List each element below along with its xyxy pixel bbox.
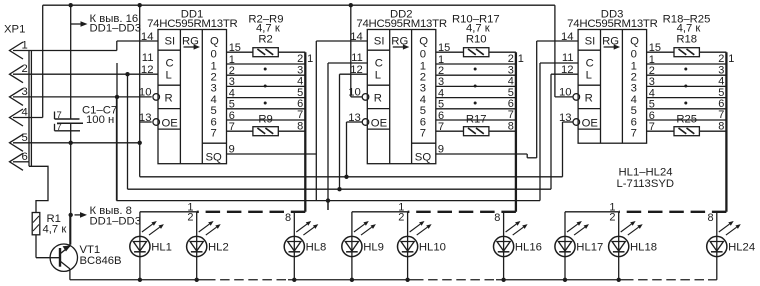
svg-text:Q: Q bbox=[210, 35, 219, 47]
DD1 pin4 wire bbox=[227, 87, 306, 99]
DD1 SQ section bbox=[202, 143, 226, 163]
svg-text:3: 3 bbox=[229, 76, 235, 88]
svg-text:4: 4 bbox=[211, 94, 217, 106]
node junction L rail / DD2 riser bbox=[337, 187, 341, 191]
svg-text:1: 1 bbox=[420, 60, 426, 72]
connector XP1 pin 1 contact bbox=[10, 40, 28, 60]
svg-text:4: 4 bbox=[631, 94, 637, 106]
svg-text:3: 3 bbox=[438, 76, 444, 88]
wire DD2 SQ link jog bbox=[527, 154, 537, 158]
DD1 labels bbox=[162, 35, 220, 129]
wire HL17 cathode bbox=[564, 257, 566, 280]
wire HL1 cathode bbox=[139, 257, 141, 280]
ellipsis dots group 1 bbox=[264, 68, 267, 105]
svg-text:C: C bbox=[375, 58, 383, 70]
svg-text:6: 6 bbox=[211, 116, 217, 128]
wire XP1 pin3 to DD1 pin10 bbox=[13, 96, 152, 98]
svg-text:0: 0 bbox=[211, 49, 217, 61]
svg-text:1: 1 bbox=[22, 40, 28, 52]
DD3 pin4 wire bbox=[647, 87, 727, 99]
IC DD2 body bbox=[367, 30, 436, 164]
LED HL1 bbox=[130, 221, 172, 257]
wire L rail bbox=[128, 188, 552, 190]
node HL17 cathode junction bbox=[563, 278, 567, 282]
wire R1 to VT1 base bbox=[36, 235, 60, 258]
svg-text:HL2: HL2 bbox=[208, 242, 229, 254]
node junction top rail / DD2 pin10 drop bbox=[349, 3, 353, 7]
svg-text:5: 5 bbox=[297, 87, 303, 99]
svg-text:10: 10 bbox=[139, 87, 152, 99]
connector XP1 pin 2 contact bbox=[10, 63, 28, 83]
svg-text:4,7 к: 4,7 к bbox=[256, 22, 280, 34]
svg-text:2: 2 bbox=[438, 65, 444, 77]
node junction к выв 8 bbox=[69, 213, 73, 217]
svg-text:4: 4 bbox=[420, 94, 426, 106]
node HL10 cathode junction bbox=[405, 278, 409, 282]
svg-text:5: 5 bbox=[211, 105, 217, 117]
svg-text:15: 15 bbox=[229, 42, 241, 54]
svg-text:4: 4 bbox=[438, 87, 444, 99]
DD1 pin15 wire bbox=[227, 42, 306, 54]
svg-text:2: 2 bbox=[187, 212, 193, 224]
node HL1 cathode junction bbox=[138, 278, 142, 282]
wire cathode rail dashed 2 bbox=[414, 279, 496, 281]
svg-text:4,7 к: 4,7 к bbox=[466, 22, 490, 34]
label C1-C7 value bbox=[82, 104, 117, 125]
svg-text:8: 8 bbox=[707, 212, 713, 224]
DD3 pin13 inversion circle bbox=[573, 119, 580, 126]
DD3 pin15 wire bbox=[647, 42, 727, 54]
svg-text:9: 9 bbox=[438, 143, 444, 155]
svg-text:7: 7 bbox=[438, 121, 444, 133]
DD1 pin9 wire bbox=[227, 143, 317, 155]
DD3 pin5 wire bbox=[647, 99, 727, 111]
wire DD2 OE riser bbox=[347, 122, 363, 177]
resistor R25 bbox=[674, 114, 699, 136]
svg-text:7: 7 bbox=[718, 109, 724, 121]
svg-text:R: R bbox=[585, 92, 593, 104]
svg-text:4: 4 bbox=[508, 76, 514, 88]
svg-text:0: 0 bbox=[631, 49, 637, 61]
svg-text:6: 6 bbox=[438, 110, 444, 122]
svg-text:4: 4 bbox=[22, 107, 28, 119]
svg-text:4: 4 bbox=[649, 87, 655, 99]
svg-text:2: 2 bbox=[718, 53, 724, 65]
svg-text:6: 6 bbox=[22, 151, 28, 163]
svg-text:L: L bbox=[166, 69, 172, 81]
svg-text:2: 2 bbox=[398, 212, 404, 224]
DD2 pin1 wire bbox=[436, 54, 516, 66]
svg-text:DD1–DD3: DD1–DD3 bbox=[90, 23, 141, 35]
wire group 2 anode bus solid bbox=[352, 211, 408, 213]
DD2 pin6 wire bbox=[436, 110, 516, 122]
node junction top rail / C1 line bbox=[69, 3, 73, 7]
wire DD2 C riser bbox=[328, 63, 367, 210]
svg-text:1: 1 bbox=[211, 60, 217, 72]
wire cathode rail solid 1 bbox=[70, 279, 206, 281]
svg-text:2: 2 bbox=[229, 65, 235, 77]
LED HL10 bbox=[398, 221, 446, 257]
svg-text:74HC595RM13TR: 74HC595RM13TR bbox=[567, 18, 657, 30]
LED HL17 bbox=[555, 221, 603, 257]
svg-text:1: 1 bbox=[307, 53, 313, 65]
wire group 2 anode bus dashed bbox=[408, 211, 516, 213]
wire group 3 anode bus dashed bbox=[619, 211, 727, 213]
wire group 3 LED8 riser bbox=[716, 212, 718, 237]
IC DD1 body bbox=[158, 30, 227, 164]
svg-text:OE: OE bbox=[582, 117, 599, 129]
wire GND vertical к выв 8 bbox=[70, 143, 72, 245]
svg-text:2: 2 bbox=[211, 72, 217, 84]
LED HL16 bbox=[494, 221, 542, 257]
svg-text:1: 1 bbox=[728, 53, 734, 65]
wire DD3 OE riser bbox=[563, 122, 574, 177]
svg-text:5: 5 bbox=[718, 87, 724, 99]
svg-text:3: 3 bbox=[508, 64, 514, 76]
svg-text:11: 11 bbox=[142, 52, 154, 64]
svg-text:3: 3 bbox=[22, 86, 28, 98]
DD3 pin1 wire bbox=[647, 54, 727, 66]
wire group 3 LED2 riser bbox=[618, 212, 620, 237]
connector XP1 pin 4 contact bbox=[10, 107, 28, 127]
DD2 pin4 wire bbox=[436, 87, 516, 99]
svg-text:5: 5 bbox=[22, 132, 28, 144]
svg-text:R2: R2 bbox=[258, 34, 272, 46]
node junction pin3/C net bbox=[115, 95, 119, 99]
DD1 pin2 wire bbox=[227, 65, 306, 77]
svg-text:VT1: VT1 bbox=[80, 244, 101, 256]
DD2 pin3 wire bbox=[436, 76, 516, 88]
svg-text:1: 1 bbox=[229, 54, 235, 66]
svg-text:2: 2 bbox=[609, 212, 615, 224]
label resistor group R18–R25 bbox=[663, 14, 711, 35]
svg-text:SI: SI bbox=[585, 35, 596, 47]
svg-text:HL1–HL24: HL1–HL24 bbox=[619, 167, 673, 179]
svg-text:RG: RG bbox=[391, 35, 408, 47]
ellipsis dots group 2 bbox=[474, 68, 477, 105]
DD1 pin1 wire bbox=[227, 54, 306, 66]
node HL16 cathode junction bbox=[501, 278, 505, 282]
resistor R10 bbox=[464, 34, 489, 57]
IC DD1 74HC595 title bbox=[147, 8, 237, 30]
svg-text:R10: R10 bbox=[466, 34, 487, 46]
DD3 pin2 wire bbox=[647, 65, 727, 77]
LED HL24 bbox=[707, 221, 755, 257]
svg-text:74HC595RM13TR: 74HC595RM13TR bbox=[356, 18, 446, 30]
LED HL8 bbox=[284, 221, 326, 257]
DD2 pin15 wire bbox=[436, 42, 516, 54]
svg-text:HL1: HL1 bbox=[151, 242, 172, 254]
svg-text:4: 4 bbox=[229, 87, 235, 99]
wire group 1 LED1 riser bbox=[139, 212, 141, 237]
wire HL2 cathode bbox=[196, 257, 198, 280]
node HL18 cathode junction bbox=[617, 278, 621, 282]
svg-text:13: 13 bbox=[139, 112, 152, 124]
node junction pin2/L rail bbox=[125, 72, 129, 76]
svg-text:3: 3 bbox=[649, 76, 655, 88]
svg-text:2: 2 bbox=[420, 72, 426, 84]
wire group 1 anode bus solid bbox=[140, 211, 197, 213]
wire stub below C rail bbox=[327, 201, 329, 210]
svg-text:0: 0 bbox=[420, 49, 426, 61]
connector XP1 pin 5 contact bbox=[10, 132, 28, 152]
svg-text:SQ: SQ bbox=[415, 151, 432, 163]
svg-text:8: 8 bbox=[718, 120, 724, 132]
svg-text:XP1: XP1 bbox=[4, 24, 25, 36]
svg-text:7: 7 bbox=[631, 128, 637, 140]
node junction top rail / DD1 drop bbox=[138, 3, 142, 7]
svg-text:SQ: SQ bbox=[206, 151, 223, 163]
svg-text:7: 7 bbox=[420, 128, 426, 140]
svg-text:4: 4 bbox=[718, 76, 724, 88]
wire cathode rail solid 3 bbox=[496, 279, 624, 281]
svg-text:HL16: HL16 bbox=[515, 242, 542, 254]
DD1 pin13 inversion circle bbox=[153, 119, 160, 126]
label HL1-HL24 type bbox=[617, 167, 675, 190]
svg-text:7: 7 bbox=[229, 121, 235, 133]
wire group 1 LED2 riser bbox=[196, 212, 198, 237]
svg-text:3: 3 bbox=[211, 83, 217, 95]
wire DD3 C riser bbox=[540, 63, 578, 201]
DD2 pin2 wire bbox=[436, 65, 516, 77]
node junction OE rail / DD2 riser bbox=[344, 175, 348, 179]
node HL8 cathode junction bbox=[292, 278, 296, 282]
ellipsis dots group 3 bbox=[684, 68, 687, 105]
DD2 pin5 wire bbox=[436, 99, 516, 111]
wire +V top rail bbox=[43, 4, 555, 6]
resistor R18 bbox=[674, 34, 699, 57]
wire DD2 pin10 from +V bbox=[351, 5, 362, 97]
wire XP1 pin4 bbox=[13, 117, 43, 119]
LED HL18 bbox=[609, 221, 657, 257]
svg-text:15: 15 bbox=[649, 42, 661, 54]
resistor R9 bbox=[253, 114, 278, 136]
svg-text:7: 7 bbox=[297, 109, 303, 121]
svg-text:OE: OE bbox=[371, 117, 388, 129]
node junction pin5/C1 bottom bbox=[69, 141, 73, 145]
wire HL16 cathode bbox=[503, 257, 505, 280]
wire group 2 LED1 riser bbox=[351, 212, 353, 237]
IC DD2 74HC595 title bbox=[356, 8, 446, 30]
wire group 3 LED1 riser bbox=[564, 212, 566, 237]
svg-text:RG: RG bbox=[602, 35, 619, 47]
svg-text:2: 2 bbox=[22, 63, 28, 75]
wire group 2 LED8 riser bbox=[503, 212, 505, 237]
wire HL9 cathode bbox=[351, 257, 353, 280]
svg-text:3: 3 bbox=[718, 64, 724, 76]
svg-text:4,7 к: 4,7 к bbox=[43, 224, 67, 236]
wire top rail left drop to XP1 pin4 bbox=[42, 5, 44, 117]
svg-text:6: 6 bbox=[718, 98, 724, 110]
LED HL2 bbox=[187, 221, 229, 257]
wire HL8 cathode bbox=[293, 257, 295, 280]
wire HL24 cathode bbox=[716, 257, 718, 280]
wire cathode rail solid 2 bbox=[288, 279, 414, 281]
svg-text:6: 6 bbox=[508, 98, 514, 110]
DD3 pin3 wire bbox=[647, 76, 727, 88]
svg-text:L-7113SYD: L-7113SYD bbox=[617, 178, 675, 190]
svg-text:8: 8 bbox=[297, 120, 303, 132]
DD3 labels bbox=[582, 35, 640, 129]
svg-text:Q: Q bbox=[630, 35, 639, 47]
wire DD3 L riser bbox=[551, 74, 578, 189]
svg-text:SI: SI bbox=[165, 35, 176, 47]
svg-text:6: 6 bbox=[297, 98, 303, 110]
svg-text:R18: R18 bbox=[676, 34, 697, 46]
DD3 pin10 inversion circle bbox=[573, 94, 580, 101]
svg-text:5: 5 bbox=[649, 99, 655, 111]
DD2 SQ section bbox=[412, 143, 436, 163]
wire VT1 collector bbox=[69, 215, 71, 246]
DD1 pin7 wire bbox=[227, 121, 306, 133]
svg-text:7: 7 bbox=[57, 110, 62, 121]
svg-text:7: 7 bbox=[508, 109, 514, 121]
LED HL9 bbox=[342, 221, 384, 257]
svg-text:HL17: HL17 bbox=[576, 242, 603, 254]
wire group 2 LED2 riser bbox=[407, 212, 409, 237]
wire cathode rail solid 4 bbox=[708, 279, 717, 281]
svg-text:HL24: HL24 bbox=[728, 242, 755, 254]
svg-text:HL10: HL10 bbox=[419, 242, 446, 254]
label resistor group R10–R17 bbox=[452, 14, 500, 35]
svg-text:8: 8 bbox=[285, 212, 291, 224]
svg-text:HL9: HL9 bbox=[363, 242, 384, 254]
wire group 2 bus vertical bbox=[515, 52, 517, 212]
svg-text:12: 12 bbox=[141, 64, 154, 76]
svg-text:1: 1 bbox=[649, 54, 655, 66]
label resistor group R2–R9 bbox=[248, 14, 283, 35]
svg-text:RG: RG bbox=[182, 35, 199, 47]
svg-text:6: 6 bbox=[649, 110, 655, 122]
node junction C rail / DD2 riser bbox=[326, 198, 330, 202]
DD3 pin7 wire bbox=[647, 121, 727, 133]
wire C rail bbox=[117, 97, 541, 201]
connector XP1 pin 3 contact bbox=[10, 86, 28, 106]
wire HL18 cathode bbox=[618, 257, 620, 280]
svg-text:2: 2 bbox=[297, 53, 303, 65]
DD1 pin3 wire bbox=[227, 76, 306, 88]
wire cathode rail dashed 1 bbox=[206, 279, 288, 281]
wire OE rail bbox=[140, 5, 563, 177]
svg-text:3: 3 bbox=[420, 83, 426, 95]
svg-text:6: 6 bbox=[229, 110, 235, 122]
IC DD3 74HC595 title bbox=[567, 8, 657, 30]
capacitor C1-C7 symbol bbox=[55, 5, 84, 143]
DD1 pin5 wire bbox=[227, 99, 306, 111]
IC DD3 body bbox=[578, 30, 647, 144]
wire XP1 pin1 to DD1 SI bbox=[13, 41, 158, 51]
DD2 pin13 inversion circle bbox=[362, 119, 369, 126]
wire C net vertical DD1 bbox=[116, 63, 118, 201]
node HL9 cathode junction bbox=[350, 278, 354, 282]
DD2 pin9 wire bbox=[436, 143, 527, 155]
svg-text:7: 7 bbox=[57, 122, 62, 133]
wire XP1 pin6 bbox=[13, 162, 29, 167]
wire group 1 LED8 riser bbox=[293, 212, 295, 237]
wire VT1 emitter to cathode rail bbox=[69, 269, 71, 280]
svg-text:BC846B: BC846B bbox=[80, 255, 122, 267]
resistor R17 bbox=[464, 114, 489, 136]
wire DD1 SQ to DD2 SI bbox=[316, 41, 367, 201]
node junction pin5/OE vertical bbox=[138, 141, 142, 145]
svg-text:C: C bbox=[586, 58, 594, 70]
wire parallel pair from pin1 bbox=[29, 51, 31, 167]
wire DD2 L riser bbox=[340, 74, 368, 189]
svg-text:7: 7 bbox=[211, 128, 217, 140]
svg-text:5: 5 bbox=[508, 87, 514, 99]
svg-text:3: 3 bbox=[631, 83, 637, 95]
svg-text:5: 5 bbox=[438, 99, 444, 111]
svg-text:1: 1 bbox=[631, 60, 637, 72]
svg-text:2: 2 bbox=[649, 65, 655, 77]
wire DD1 pin13 stub bbox=[140, 121, 152, 123]
svg-text:5: 5 bbox=[420, 105, 426, 117]
svg-text:HL18: HL18 bbox=[630, 242, 657, 254]
wire L net drop bbox=[127, 74, 129, 189]
svg-text:9: 9 bbox=[229, 143, 235, 155]
wire DD3 pin10 from +V bbox=[555, 5, 573, 97]
svg-text:1: 1 bbox=[438, 54, 444, 66]
svg-text:2: 2 bbox=[631, 72, 637, 84]
svg-text:Q: Q bbox=[419, 35, 428, 47]
wire group 1 bus vertical bbox=[304, 52, 306, 212]
label К выв. 16 DD1-DD3 with arrow bbox=[71, 13, 141, 35]
svg-text:5: 5 bbox=[229, 99, 235, 111]
wire XP1 pin2 to DD1 pin12 bbox=[13, 73, 158, 75]
svg-text:C: C bbox=[166, 58, 174, 70]
svg-text:DD1–DD3: DD1–DD3 bbox=[90, 215, 141, 227]
wire cathode rail dashed 3 bbox=[624, 279, 708, 281]
node HL2 cathode junction bbox=[195, 278, 199, 282]
svg-text:SI: SI bbox=[374, 35, 385, 47]
svg-text:74HC595RM13TR: 74HC595RM13TR bbox=[147, 18, 237, 30]
wire group 3 bus vertical bbox=[725, 52, 727, 212]
DD1 pin10 inversion circle bbox=[153, 94, 160, 101]
svg-text:R: R bbox=[165, 92, 173, 104]
svg-text:15: 15 bbox=[438, 42, 450, 54]
resistor R2 bbox=[253, 34, 278, 57]
svg-text:5: 5 bbox=[631, 105, 637, 117]
DD1 pin6 wire bbox=[227, 110, 306, 122]
svg-text:8: 8 bbox=[494, 212, 500, 224]
wire XP1 pin5 GND bbox=[13, 142, 140, 144]
wire HL10 cathode bbox=[407, 257, 409, 280]
svg-text:3: 3 bbox=[297, 64, 303, 76]
svg-text:L: L bbox=[586, 69, 592, 81]
wire DD3 SI riser bbox=[537, 41, 578, 158]
svg-text:R: R bbox=[374, 92, 382, 104]
svg-text:100 н: 100 н bbox=[86, 114, 114, 126]
svg-text:6: 6 bbox=[631, 116, 637, 128]
svg-text:7: 7 bbox=[649, 121, 655, 133]
svg-text:1: 1 bbox=[518, 53, 524, 65]
svg-text:8: 8 bbox=[508, 120, 514, 132]
DD2 pin10 inversion circle bbox=[362, 94, 369, 101]
svg-text:4: 4 bbox=[297, 76, 303, 88]
svg-text:HL8: HL8 bbox=[306, 242, 327, 254]
label К выв. 8 DD1-DD3 with arrow bbox=[75, 205, 141, 227]
transistor VT1 bbox=[50, 244, 121, 272]
svg-text:14: 14 bbox=[141, 31, 154, 43]
resistor R1 bbox=[32, 213, 66, 236]
wire to R1 top bbox=[29, 166, 48, 212]
wire group 1 anode bus dashed bbox=[197, 211, 306, 213]
connector XP1 pin 6 contact bbox=[10, 151, 28, 171]
svg-text:2: 2 bbox=[508, 53, 514, 65]
svg-text:6: 6 bbox=[420, 116, 426, 128]
svg-text:L: L bbox=[375, 69, 381, 81]
DD3 pin6 wire bbox=[647, 110, 727, 122]
